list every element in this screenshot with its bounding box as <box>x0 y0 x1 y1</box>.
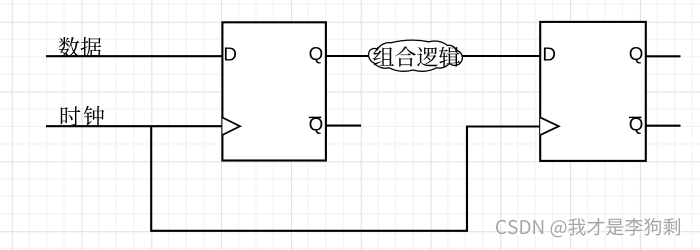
svg-text:D: D <box>223 43 237 64</box>
flip-flop U2 box <box>540 22 646 161</box>
label: 数据 (data) <box>59 37 101 57</box>
wire: clock branch down, across bottom, up to clock of U2 <box>151 126 540 231</box>
wire: clock input to U1 <box>46 125 222 127</box>
overline of Q-bar (U1) <box>309 116 322 118</box>
flip-flop U1 clock triangle <box>222 118 240 136</box>
wire: data input to D of U1 <box>46 55 222 57</box>
watermark emboss shadow <box>497 219 681 238</box>
combinational logic cloud <box>369 40 463 71</box>
wire: Q-bar stub of U1 <box>326 125 361 127</box>
wire: Q stub of U2 <box>646 55 681 57</box>
wire: Q-bar stub of U2 <box>646 125 681 127</box>
overline of Q-bar (U2) <box>629 116 642 118</box>
svg-text:Q: Q <box>309 43 324 64</box>
label: 组合逻辑 (combinational logic) inside cloud <box>373 46 460 66</box>
svg-text:Q: Q <box>629 113 644 134</box>
flip-flop U2 clock triangle <box>540 117 559 135</box>
svg-text:Q: Q <box>309 113 324 134</box>
wire: Q of U1 to D of U2 (passes behind cloud) <box>326 55 541 57</box>
svg-text:Q: Q <box>629 43 644 64</box>
watermark: CSDN @我才是李狗剩 <box>496 218 680 237</box>
svg-text:D: D <box>542 43 556 64</box>
label: 时钟 (clock) <box>61 106 104 126</box>
flip-flop U1 box <box>222 22 326 160</box>
